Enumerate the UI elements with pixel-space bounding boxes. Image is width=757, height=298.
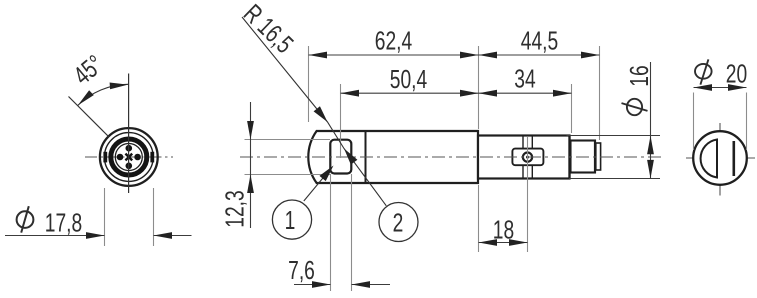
- svg-text:20: 20: [726, 59, 747, 89]
- 45 degree slant reference line: [69, 97, 110, 138]
- 7,6 arrow right: [352, 281, 371, 288]
- 44,5 arrow left: [479, 52, 498, 59]
- side view horizontal centerline: [240, 156, 663, 158]
- dimension 12,3 vertical line: [250, 102, 252, 228]
- extension line 12,3 top: [245, 139, 331, 141]
- dimension 7,6 line left segment: [294, 284, 331, 286]
- 62,4 arrow right: [460, 52, 479, 59]
- dia 17,8 arrow left: [86, 232, 105, 239]
- dimension line 50,4: [341, 92, 479, 94]
- balloon 1 circle: [272, 200, 311, 239]
- dia 16 dimension vertical line: [650, 62, 652, 179]
- left view outer circle: [100, 128, 158, 186]
- connector pin top: [126, 145, 133, 152]
- left view horizontal centerline: [85, 156, 173, 158]
- svg-text:50,4: 50,4: [390, 64, 428, 94]
- 18 arrow right: [509, 239, 528, 246]
- svg-text:34: 34: [514, 64, 536, 94]
- svg-text:16: 16: [624, 65, 654, 86]
- 45 arc arrow right: [110, 81, 129, 89]
- R16,5 arrow on dome: [314, 106, 331, 124]
- dia 20 extension line left: [693, 93, 695, 151]
- left view second circle (Ø17,8): [104, 133, 153, 182]
- right view outer circle: [693, 131, 747, 185]
- R 16,5 leader line (to balloon 2): [242, 17, 386, 206]
- dia 20 dimension line: [694, 87, 747, 89]
- dimension 7,6 line right segment: [352, 284, 391, 286]
- dia20 arrow left: [694, 84, 713, 91]
- clamp screw circle: [523, 153, 532, 162]
- dimension line 62,4: [309, 54, 479, 56]
- 45 arc arrow lower-left: [76, 90, 94, 108]
- 44,5 arrow right: [581, 52, 600, 59]
- left keying tab: [103, 152, 107, 163]
- extension line shared at step: [478, 46, 480, 129]
- dia 17,8 dimension line right segment: [154, 235, 192, 237]
- extension line 7,6 right: [351, 174, 353, 291]
- extension line 18 left: [478, 185, 480, 252]
- left view coupling ring (thick dark donut): [111, 139, 147, 175]
- 34 arrow right: [553, 90, 572, 97]
- dimension line 44,5: [479, 54, 600, 56]
- sensing insert rounded rectangle: [330, 140, 351, 174]
- extension line 18 right (screw center): [527, 137, 529, 252]
- dia 17,8 arrow right: [154, 232, 173, 239]
- middle section end line: [568, 136, 570, 179]
- 62,4 arrow left: [309, 52, 328, 59]
- svg-text:18: 18: [493, 214, 514, 244]
- clamp slot line upper right: [531, 137, 533, 149]
- dia16 arrow up: [647, 136, 654, 155]
- head joint line: [365, 131, 367, 183]
- extension line 62,4 left: [308, 46, 310, 122]
- balloon 2 circle: [379, 203, 418, 242]
- 7,6 arrow left: [312, 281, 331, 288]
- dia 20 extension line right: [746, 93, 748, 151]
- connector pin bottom: [126, 163, 133, 170]
- extension line dia16 top: [567, 135, 661, 137]
- connector center cross mark: [125, 153, 133, 161]
- connector pin right: [134, 154, 141, 161]
- extension line 12,3 bottom: [245, 174, 331, 176]
- 45 degree dimension arc: [78, 84, 129, 105]
- 12,3 arrow top: [247, 121, 254, 140]
- dia16 middle section: [478, 136, 570, 179]
- extension line 44,5 right: [599, 46, 601, 140]
- right view vertical centerline: [719, 123, 721, 196]
- thread section: [571, 141, 596, 173]
- left view inner face circle: [115, 144, 142, 171]
- clamp slot line upper left: [522, 137, 524, 149]
- dia20 phi symbol: [695, 59, 712, 84]
- extension line 34 right: [571, 84, 573, 133]
- clamp barrel (stadium): [512, 149, 543, 166]
- dia16 phi symbol (rotated): [622, 99, 648, 115]
- dimension 18 line: [479, 242, 528, 244]
- right view D-shaped key: [701, 140, 717, 178]
- main body outline (head + cylinder): [308, 131, 478, 183]
- clamp slot line lower left: [522, 166, 524, 178]
- right view horizontal centerline: [686, 157, 755, 159]
- svg-text:62,4: 62,4: [375, 26, 413, 56]
- 12,3 arrow bottom: [247, 175, 254, 194]
- 50,4 arrow right: [460, 90, 479, 97]
- right keying tab: [150, 152, 154, 163]
- 18 arrow left: [479, 239, 498, 246]
- dia 17,8 extension line right: [153, 188, 155, 246]
- svg-text:44,5: 44,5: [521, 26, 558, 56]
- connector pin left: [117, 154, 124, 161]
- dia20 arrow right: [728, 84, 747, 91]
- svg-text:1: 1: [285, 205, 296, 235]
- dia 17,8 extension line left: [104, 188, 106, 246]
- dia 17,8 phi symbol: [17, 206, 34, 232]
- extension line dia16 bottom: [569, 178, 660, 180]
- thread end line: [594, 141, 596, 173]
- dia16 arrow down: [647, 160, 654, 179]
- balloon 1 leader line: [304, 170, 330, 202]
- connector tip: [596, 143, 601, 170]
- svg-text:2: 2: [393, 208, 404, 238]
- clamp screw dot: [526, 156, 529, 159]
- svg-text:17,8: 17,8: [45, 208, 82, 238]
- clamp slot line lower right: [531, 166, 533, 178]
- 50,4 arrow left: [341, 90, 360, 97]
- balloon 2 arrow (points at insert): [341, 146, 358, 165]
- extension line 7,6 left: [330, 174, 332, 291]
- dia 17,8 dimension line left segment: [5, 235, 105, 237]
- left view vertical reference line: [128, 74, 130, 194]
- svg-text:7,6: 7,6: [288, 255, 315, 285]
- extension line 50,4 left: [340, 84, 342, 158]
- svg-text:12,3: 12,3: [220, 190, 250, 227]
- right view bar: [732, 141, 735, 176]
- 34 arrow left: [479, 90, 498, 97]
- balloon 1 leader arrow: [319, 163, 336, 181]
- dimension line 34: [479, 92, 572, 94]
